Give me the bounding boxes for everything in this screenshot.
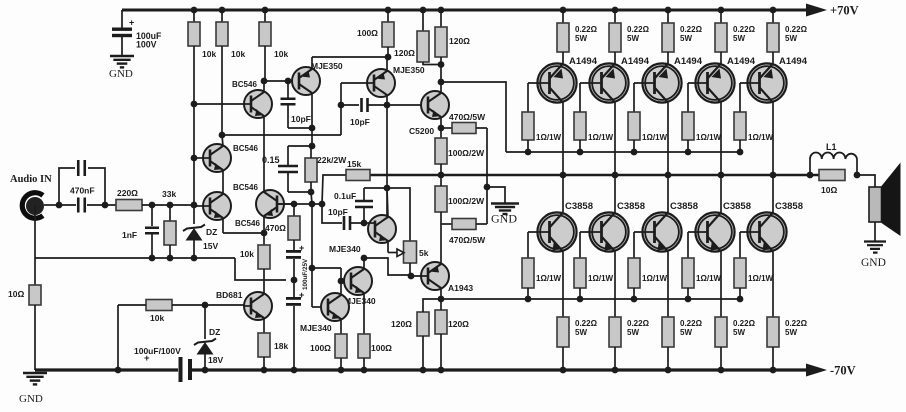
svg-text:GND: GND <box>861 257 886 269</box>
resistor 100&#937; (MJE350 emitters) <box>382 22 394 47</box>
wire bus to 10R <box>34 258 36 285</box>
svg-text:A1494: A1494 <box>674 56 703 67</box>
svg-text:0.22Ω: 0.22Ω <box>680 319 703 328</box>
wire A1943 base <box>411 275 428 277</box>
wire node to MJE350 Q5 base <box>264 80 299 82</box>
svg-text:1Ω/1W: 1Ω/1W <box>536 133 562 142</box>
wire Q8 collector node to A1943 base node <box>364 258 411 275</box>
svg-text:15V: 15V <box>203 241 218 251</box>
resistor 220&#937; <box>116 200 142 211</box>
junction 33k top <box>167 202 174 209</box>
wire emitter to 100R/2W upper <box>440 128 442 138</box>
wire to Q6 emitter <box>386 57 388 72</box>
wire wiper line <box>388 252 397 254</box>
svg-text:A1494: A1494 <box>569 56 598 67</box>
wire down to ground segment <box>117 305 119 370</box>
svg-text:470Ω: 470Ω <box>265 223 286 233</box>
svg-text:18V: 18V <box>208 355 223 365</box>
resistor 1&#937;/1W top #1 <box>522 112 534 140</box>
wire MJE350 Q6 base vertical <box>340 83 342 135</box>
wire 10k to BD681 base <box>172 304 244 306</box>
wire rail to 10k #2 <box>221 10 223 22</box>
wire 1R to bus top #1 <box>527 140 529 152</box>
svg-text:100V: 100V <box>136 40 157 50</box>
junction -70V rail #3 <box>665 367 672 374</box>
wire 470R/5W lower right <box>476 223 487 225</box>
svg-text:1Ω/1W: 1Ω/1W <box>536 274 562 283</box>
node input/base BC546 Q3 <box>191 202 198 209</box>
inductor L1 <box>809 159 811 175</box>
node Q8 base tap <box>338 278 345 285</box>
speaker <box>869 187 882 222</box>
junction output rail #1 <box>560 172 567 179</box>
wire C3858 #2 base <box>580 231 602 233</box>
wire A1494 #5 collector to C3858 collector <box>772 103 774 213</box>
svg-text:MJE350: MJE350 <box>393 65 425 75</box>
junction top rail / 10k #1 <box>191 7 198 14</box>
svg-text:5W: 5W <box>575 328 587 337</box>
output rail <box>370 174 819 177</box>
wire to Q5 emitter <box>311 57 313 70</box>
wire bias A to Q1 base <box>194 103 251 105</box>
wire +70V rail to capacitor C-dec1 <box>121 10 123 29</box>
svg-text:5W: 5W <box>733 34 745 43</box>
wire spreader top to 5k <box>387 188 410 241</box>
potentiometer 5k body <box>404 241 417 263</box>
PNP base drive bus (top) <box>506 151 740 153</box>
svg-text:10k: 10k <box>150 313 164 323</box>
svg-text:100uF/100V: 100uF/100V <box>134 346 181 356</box>
svg-text:C3858: C3858 <box>565 201 593 212</box>
node feedback / 470R top <box>291 201 298 208</box>
wire Q9 collector chain <box>340 268 342 296</box>
plates 10pF#2 <box>362 98 368 112</box>
wire 1nF to bus <box>151 234 153 258</box>
resistor 0.22&#937; 5W top #4 <box>715 23 727 52</box>
svg-text:BC546: BC546 <box>232 80 257 89</box>
node PNP base drive takeoff <box>438 79 445 86</box>
node Miller cap C-10pF#2 left <box>338 102 345 109</box>
wire rail to 0.22R top #2 <box>614 10 616 23</box>
node C5200 emitter <box>438 125 445 132</box>
resistor 0.22&#937; 5W bottom #1 <box>557 317 569 347</box>
wire 100R/2W lower to node <box>440 212 442 224</box>
wire 1R to bus top #5 <box>739 140 741 152</box>
svg-text:+: + <box>299 243 304 253</box>
wire 10k tail to BD681 collector <box>263 269 265 293</box>
svg-text:100uF/25V: 100uF/25V <box>302 258 309 290</box>
wire A1494 #3 base <box>634 82 655 84</box>
svg-text:470nF: 470nF <box>70 186 95 196</box>
wire C3858 #3 base <box>634 231 655 233</box>
wire caps to -70V rail <box>293 306 295 370</box>
zener DZ 15V <box>186 228 203 241</box>
svg-text:0.15: 0.15 <box>262 155 280 165</box>
input ground bus <box>35 257 235 259</box>
wire Q5 collector down <box>311 95 313 129</box>
svg-text:5W: 5W <box>627 328 639 337</box>
junction 1R bus bottom #3 <box>631 296 638 303</box>
resistor 470&#937;/5W (upper) <box>452 123 476 134</box>
svg-text:L1: L1 <box>826 142 837 152</box>
resistor 100&#937; (Q9 emitter) <box>335 334 347 358</box>
capacitor 470nF (lower, in line) <box>59 204 76 206</box>
resistor 1&#937;/1W bottom #3 <box>628 258 640 288</box>
junction -70V rail #5 <box>770 367 777 374</box>
capacitor 100uF/100V (top-left) <box>112 28 132 31</box>
wire 5k bottom to A1943 base node <box>409 263 411 275</box>
wire 120R#2 top <box>440 299 442 310</box>
resistor 1&#937;/1W bottom #4 <box>682 258 694 288</box>
wire tail to 10k tail resistor <box>263 233 265 245</box>
wire C3858 #2 emitter to 0.22R <box>614 252 616 318</box>
wire comp to feedback line <box>311 192 312 204</box>
svg-text:0.22Ω: 0.22Ω <box>785 25 808 34</box>
wire base to 1R top #2 <box>579 83 581 112</box>
node Q8 collector branch <box>361 255 368 262</box>
svg-text:0.22Ω: 0.22Ω <box>680 25 703 34</box>
transistor MJE350 Q5 <box>292 67 320 95</box>
junction zener 15V bottom <box>191 255 198 262</box>
capacitor 10pF #2 (Q6 Miller) <box>341 104 359 106</box>
junction rail / 0.22R top #1 <box>560 7 567 14</box>
capacitor 100uF/25V (lower) <box>286 297 301 300</box>
wire 1R to bus bottom #2 <box>579 288 581 299</box>
svg-text:0.22Ω: 0.22Ω <box>733 25 756 34</box>
svg-text:+: + <box>129 18 134 28</box>
wire 1R to bus bottom #4 <box>687 288 689 299</box>
wire feedback drop to Q9 base <box>311 204 313 307</box>
svg-text:100Ω/2W: 100Ω/2W <box>448 148 485 158</box>
svg-text:BC546: BC546 <box>233 183 258 192</box>
wire down to compensation top <box>311 128 313 146</box>
transistor MJE340 Q8 <box>344 267 372 295</box>
wire base node to zener 18V <box>204 305 206 339</box>
wire branch to Q8 base chain <box>312 267 341 269</box>
svg-text:GND: GND <box>19 393 43 405</box>
junction 1nF top <box>149 202 156 209</box>
wire bus corner to electrolytic midpoint <box>235 258 286 280</box>
junction rail / 0.22R top #2 <box>612 7 619 14</box>
junction output rail at driver <box>438 172 445 179</box>
plates 470nF lower <box>78 198 85 213</box>
svg-text:0.22Ω: 0.22Ω <box>733 319 756 328</box>
node A1943 base / 5k bottom <box>408 273 415 280</box>
wire Q6 base <box>341 82 374 84</box>
junction 470nF bracket left <box>56 202 63 209</box>
wire to 470R/5W lower <box>441 223 452 225</box>
svg-text:5W: 5W <box>680 34 692 43</box>
resistor 1&#937;/1W bottom #2 <box>574 258 586 288</box>
transistor MJE340 Q9 <box>321 293 349 321</box>
resistor 10k #1 <box>188 22 200 46</box>
resistor 470&#937; (feedback) <box>288 216 300 240</box>
svg-text:1Ω/1W: 1Ω/1W <box>588 274 614 283</box>
wire base to 1R top #5 <box>739 83 741 112</box>
wire 1R to bus top #3 <box>633 140 635 152</box>
wire between electrolytics <box>293 259 295 297</box>
plates 10pF#1 <box>281 99 296 105</box>
svg-text:DZ: DZ <box>206 227 217 237</box>
svg-text:BC546: BC546 <box>235 219 260 228</box>
svg-text:1Ω/1W: 1Ω/1W <box>696 133 722 142</box>
wire BD681 base stub <box>244 305 251 307</box>
wire jack to input cap <box>44 204 59 206</box>
svg-text:0.22Ω: 0.22Ω <box>575 25 598 34</box>
wire 10k left <box>118 304 146 306</box>
resistor 1&#937;/1W top #4 <box>682 112 694 140</box>
resistor 120&#937; #2 (top) <box>435 27 447 57</box>
wire 0.22R bottom to rail #5 <box>772 347 774 370</box>
wire rail to 100R/2W lower <box>440 175 442 186</box>
wire 10pF#3 to Q7 base <box>351 222 375 224</box>
node bias B (base BC546 Q2) <box>191 155 198 162</box>
svg-text:1nF: 1nF <box>122 230 137 240</box>
wire Q2 collector to MJE350 Q6 base drop <box>222 134 341 136</box>
junction L1 left <box>807 172 814 179</box>
wire spreader top to 0.1uF <box>364 187 387 189</box>
capacitor 1nF plates <box>145 228 159 234</box>
junction rail / 0.22R top #5 <box>770 7 777 14</box>
junction L1 right <box>854 172 861 179</box>
wire 22k bottom <box>310 182 312 192</box>
wire Q4 base to feedback node <box>277 203 294 205</box>
wire 120R#1 bottom over <box>423 62 441 65</box>
wire emitter bus <box>312 56 388 58</box>
junction Q8 100R / rail <box>361 367 368 374</box>
junction output rail #4 <box>718 172 725 179</box>
wire 220R to input node <box>142 204 194 206</box>
wire C3858 #1 emitter to 0.22R <box>562 252 564 318</box>
wire 1R to bus top #2 <box>579 140 581 152</box>
wire to speaker <box>857 175 875 188</box>
junction output rail #2 <box>612 172 619 179</box>
junction Q9 100R / rail <box>338 367 345 374</box>
junction rail / 120R #2 <box>438 7 445 14</box>
junction 1R bus bottom #2 <box>577 296 584 303</box>
junction 18k / -70V rail <box>261 367 268 374</box>
svg-text:5W: 5W <box>785 34 797 43</box>
plates 0.15 <box>278 166 298 172</box>
wire 0.22R to A1494 #4 emitter <box>720 52 722 64</box>
wire to C5200 base <box>387 104 428 106</box>
wire 470R to cap <box>293 240 295 250</box>
plates 0.1uF <box>355 201 373 207</box>
junction 1nF bottom <box>149 255 156 262</box>
node comp bottom <box>308 189 315 196</box>
svg-text:1Ω/1W: 1Ω/1W <box>696 274 722 283</box>
wire base to 1R top #1 <box>527 83 529 112</box>
wire base drive to 1R bus (top) <box>441 82 506 152</box>
svg-text:5W: 5W <box>627 34 639 43</box>
svg-text:+: + <box>299 290 304 300</box>
wire A1494 #1 base <box>528 82 550 84</box>
junction 120R#1 / rail <box>420 367 427 374</box>
svg-text:10k: 10k <box>274 49 288 59</box>
resistor 10k #3 <box>259 22 271 46</box>
transistor BC546 Q1 (cascode upper left) <box>244 90 272 118</box>
node 0.1uF bottom on Q7 base line <box>361 220 368 227</box>
bottom-left ground segment <box>35 368 178 371</box>
svg-text:Audio IN: Audio IN <box>10 174 52 185</box>
svg-text:1Ω/1W: 1Ω/1W <box>748 274 774 283</box>
capacitor 470nF (upper of parallel pair) <box>59 168 75 205</box>
svg-text:C3858: C3858 <box>723 201 751 212</box>
junction 1R bus bottom #5 <box>737 296 744 303</box>
transistor MJE350 Q6 <box>367 69 395 97</box>
svg-text:C3858: C3858 <box>775 201 803 212</box>
wire Q9 emitter to 100R <box>340 319 342 335</box>
resistor 120&#937; #1 (top) <box>417 31 429 62</box>
wire 100R to -70V rail <box>363 358 365 370</box>
wire input node to Q3 base <box>194 205 210 207</box>
svg-text:120Ω: 120Ω <box>449 36 470 46</box>
wire speaker to ground <box>874 222 876 241</box>
wire 120R#1 top to drive node <box>423 299 441 312</box>
svg-text:5k: 5k <box>419 248 429 258</box>
junction 33k bottom <box>167 255 174 262</box>
wire comp top to 22k <box>310 146 312 158</box>
wire 1R to bus top #4 <box>687 140 689 152</box>
svg-text:C3858: C3858 <box>617 201 645 212</box>
svg-text:10pF: 10pF <box>328 207 348 217</box>
resistor 18k <box>258 333 270 357</box>
node LTP tail <box>261 230 268 237</box>
svg-text:120Ω: 120Ω <box>448 319 469 329</box>
ground (top-left) <box>110 55 134 57</box>
wire 0.22R to A1494 #2 emitter <box>614 52 616 64</box>
wire 0.22R to A1494 #5 emitter <box>772 52 774 64</box>
resistor 1&#937;/1W top #5 <box>734 112 746 140</box>
wire base to 1R bottom #5 <box>739 232 741 258</box>
wire C3858 #1 base <box>528 231 550 233</box>
wire Q1 emitter down to Q4 collector <box>263 116 265 193</box>
wire rail to 0.22R top #5 <box>772 10 774 23</box>
plates 470nF upper <box>78 160 85 176</box>
wire rail to 120R#2 <box>440 10 442 27</box>
node MJE350 emitters <box>385 54 392 61</box>
junction output rail #5 <box>770 172 777 179</box>
svg-text:1Ω/1W: 1Ω/1W <box>642 274 668 283</box>
wire to 1nF <box>151 205 153 226</box>
svg-text:120Ω: 120Ω <box>391 319 412 329</box>
resistor 0.22&#937; 5W top #2 <box>609 23 621 52</box>
wire A1494 #4 base <box>688 82 708 84</box>
transistor BC546 Q2 (cascode) <box>203 144 231 172</box>
resistor 0.22&#937; 5W bottom #2 <box>609 317 621 347</box>
node between 100uF caps <box>291 277 298 284</box>
wire feedback to 15k <box>322 175 346 204</box>
NPN base drive bus (bottom) <box>441 298 740 300</box>
wire 0.22R to A1494 #1 emitter <box>562 52 564 64</box>
resistor 10k (tail) <box>258 245 270 269</box>
resistor 0.22&#937; 5W bottom #4 <box>715 317 727 347</box>
svg-text:BD681: BD681 <box>216 290 243 300</box>
wire base to 1R top #3 <box>633 83 635 112</box>
zener DZ 18V <box>197 342 214 355</box>
wire C3858 #5 emitter to 0.22R <box>772 252 774 318</box>
node Q5 collector / 10pF#1 <box>309 125 316 132</box>
junction caps / -70V rail <box>291 367 298 374</box>
svg-text:5W: 5W <box>575 34 587 43</box>
wire base to 1R bottom #3 <box>633 232 635 258</box>
wire Q8 emitter to 100R <box>363 293 365 335</box>
ground (speaker) <box>864 242 886 253</box>
svg-text:15k: 15k <box>347 159 361 169</box>
wire 10k#2 to node <box>221 46 223 135</box>
junction rail / 100R <box>385 7 392 14</box>
capacitor 100uF/100V (bottom, in rail) <box>179 357 183 382</box>
svg-text:A1494: A1494 <box>727 56 756 67</box>
svg-text:A1494: A1494 <box>779 56 808 67</box>
resistor 10&#937; (input ground) <box>29 285 41 305</box>
wire 100R/2W to output rail <box>440 164 442 175</box>
wire 33k to bus <box>169 245 171 258</box>
svg-text:5W: 5W <box>680 328 692 337</box>
transistor C3858 #5 <box>747 212 786 251</box>
transistor MJE340 Q7 (Vbe multiplier) <box>368 215 396 243</box>
svg-text:0.22Ω: 0.22Ω <box>785 319 808 328</box>
svg-text:10pF: 10pF <box>291 114 311 124</box>
svg-text:-70V: -70V <box>830 364 856 378</box>
transistor C5200 Q11 (upper driver) <box>421 91 449 119</box>
wire 120R#2 bottom <box>440 57 442 65</box>
wire Q7 emitter down <box>387 241 389 253</box>
wire C3858 #4 base <box>688 231 708 233</box>
svg-text:100Ω/2W: 100Ω/2W <box>448 196 485 206</box>
svg-text:120Ω: 120Ω <box>394 48 415 58</box>
svg-text:MJE340: MJE340 <box>329 244 361 254</box>
wire C3858 #4 emitter to 0.22R <box>720 252 722 318</box>
feedback divider 470R + electrolytics <box>293 204 295 216</box>
junction 10pF#1 top <box>285 78 292 85</box>
wire bias B to Q2 base <box>194 157 210 159</box>
wire 1R to bus bottom #5 <box>739 288 741 299</box>
wire feedback line <box>277 203 323 205</box>
wire A1494 #2 collector to C3858 collector <box>614 103 616 213</box>
resistor 0.22&#937; 5W bottom #5 <box>767 317 779 347</box>
resistor 10k (BD681 base) <box>146 300 172 311</box>
resistor 1&#937;/1W bottom #1 <box>522 258 534 288</box>
resistor 0.22&#937; 5W top #3 <box>662 23 674 52</box>
svg-text:10k: 10k <box>231 49 245 59</box>
junction 1R bus bottom #1 <box>525 296 532 303</box>
wire BD681 emitter to 18k <box>263 319 265 334</box>
transistor A1494 #3 <box>642 63 681 102</box>
resistor 0.22&#937; 5W top #1 <box>557 23 569 52</box>
junction 1R bus bottom #4 <box>685 296 692 303</box>
wire 0.22R bottom to rail #4 <box>720 347 722 370</box>
wire A1494 #2 base <box>580 82 602 84</box>
wire rail to 100R <box>387 10 389 22</box>
svg-text:5W: 5W <box>785 328 797 337</box>
wire 120R#2 to rail <box>440 334 442 370</box>
svg-text:100Ω: 100Ω <box>357 28 378 38</box>
transistor A1494 #5 <box>747 63 786 102</box>
junction zener / -70V rail <box>202 367 209 374</box>
svg-text:0.22Ω: 0.22Ω <box>575 319 598 328</box>
transistor BC546 Q3 (LTP left) <box>203 192 231 220</box>
svg-text:10pF: 10pF <box>350 117 370 127</box>
wire to 33k <box>169 205 171 221</box>
transistor C3858 #4 <box>695 212 734 251</box>
wire 120R#1 to rail <box>422 336 424 370</box>
svg-text:1Ω/1W: 1Ω/1W <box>642 133 668 142</box>
svg-text:100Ω: 100Ω <box>371 343 392 353</box>
capacitor 0.1uF <box>363 188 365 200</box>
svg-text:5W: 5W <box>733 328 745 337</box>
resistor 100&#937; (Q8 emitter) <box>358 334 370 358</box>
